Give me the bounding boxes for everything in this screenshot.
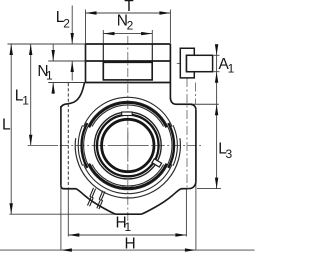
svg-text:H: H	[125, 235, 136, 252]
svg-text:L: L	[2, 116, 11, 133]
